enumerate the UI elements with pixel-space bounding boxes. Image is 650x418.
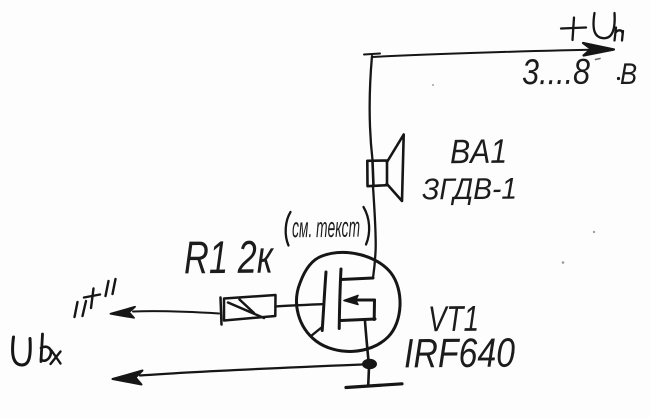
wire: input plus lead with arrow [111,307,220,318]
svg-text:ЗГДВ-1: ЗГДВ-1 [422,173,517,207]
transistor VT1 body circle [297,252,401,351]
label 3GD V-1 [422,173,517,207]
label VT1 [428,298,479,339]
speck [596,59,601,60]
resistor R1 [221,295,276,325]
wire: resistor to gate [276,304,323,306]
transistor VT1 gate bar [322,272,326,331]
transistor VT1 body-source join [373,300,376,320]
transistor VT1 source bar [341,319,375,321]
speck [593,231,595,233]
wire: speaker to drain [373,187,376,279]
transistor VT1 drain bar [341,278,373,280]
junction node [363,359,377,369]
label BA1 [450,133,507,171]
transistor VT1 body bar with arrow [344,296,375,305]
svg-text:R1 2к: R1 2к [184,231,275,284]
transistor VT1 gate tick [311,328,322,337]
svg-text:В: В [620,58,637,91]
label IRF640 [404,330,515,377]
svg-text:см. текст: см. текст [292,212,360,244]
svg-text:3....8: 3....8 [522,51,590,93]
wire: vertical from rail to speaker [370,56,373,160]
speck [562,261,565,264]
ground [346,367,402,388]
speaker BA1 [367,135,403,202]
speck [432,84,434,86]
wire: bottom input lead with arrow [113,365,363,385]
label quote-plus-quote [75,279,116,317]
label (see text) [286,207,369,246]
label U vx input [13,334,61,365]
label 3...8 V [522,51,637,93]
label R1 2k [184,231,275,284]
wire: +Un supply rail horizontal [364,43,614,57]
transistor VT1 channel bar [339,269,341,329]
svg-text:IRF640: IRF640 [404,330,515,377]
wire: source lead down [365,321,369,361]
svg-text:BA1: BA1 [450,133,507,171]
label +Un [561,13,623,41]
